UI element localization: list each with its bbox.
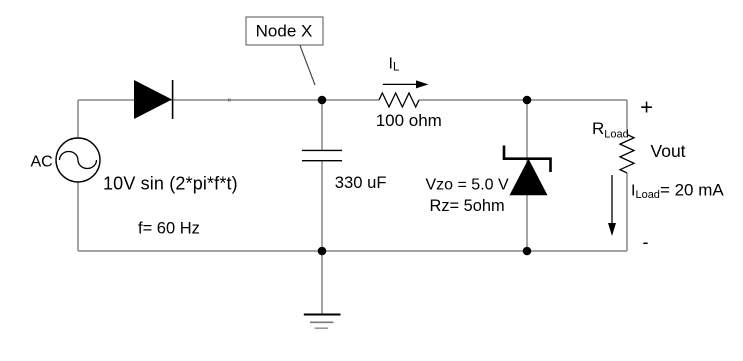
resistor R1 (100 ohm) [379, 93, 419, 107]
svg-text:Vout: Vout [651, 141, 686, 161]
svg-text:IL: IL [389, 56, 400, 74]
node junction dot bottom of zener branch [523, 247, 532, 256]
svg-text:AC: AC [31, 154, 53, 171]
wire bottom rail [78, 250, 627, 252]
wire right rail upper (top to load resistor) [626, 100, 628, 135]
svg-text:100 ohm: 100 ohm [376, 111, 442, 130]
AC source V1 [56, 138, 100, 182]
load resistor RLoad [620, 135, 634, 173]
svg-text:10V sin (2*pi*f*t): 10V sin (2*pi*f*t) [103, 174, 238, 194]
svg-text:-: - [643, 232, 649, 252]
wire top (left segment, AC source to resistor R1) [78, 99, 379, 101]
svg-text:RLoad: RLoad [592, 119, 629, 140]
svg-text:330 uF: 330 uF [335, 173, 387, 192]
svg-text:ILoad= 20 mA: ILoad= 20 mA [631, 181, 724, 202]
svg-text:Vzo = 5.0 V: Vzo = 5.0 V [426, 176, 509, 193]
capacitor C1 [302, 150, 342, 160]
node X callout box [246, 17, 323, 45]
current arrow IL [383, 80, 429, 88]
node junction dot top of zener branch [523, 96, 532, 105]
svg-text:Rz= 5ohm: Rz= 5ohm [430, 197, 505, 215]
wire ground stem [321, 251, 323, 314]
ground [304, 315, 341, 329]
current arrow ILoad [608, 175, 616, 236]
wire right rail lower (load resistor to bottom) [626, 173, 628, 251]
svg-text:+: + [640, 94, 653, 119]
svg-text:Node X: Node X [256, 21, 313, 40]
connection-point tick on top wire [228, 99, 231, 102]
wire top (resistor R1 to right rail) [419, 99, 627, 101]
wire capacitor branch lower [321, 161, 323, 251]
node junction dot bottom of capacitor branch [318, 247, 327, 256]
node junction dot at Node X (top of capacitor branch) [318, 96, 327, 105]
diode D1 [134, 80, 173, 119]
wire capacitor branch upper [321, 100, 323, 150]
wire zener branch [526, 100, 528, 251]
node X leader line [300, 46, 315, 86]
svg-text:f= 60 Hz: f= 60 Hz [138, 219, 200, 237]
wire left rail upper (AC source to top) [77, 100, 79, 138]
zener diode D2 [504, 146, 551, 196]
wire left rail lower (AC source to bottom) [77, 182, 79, 251]
